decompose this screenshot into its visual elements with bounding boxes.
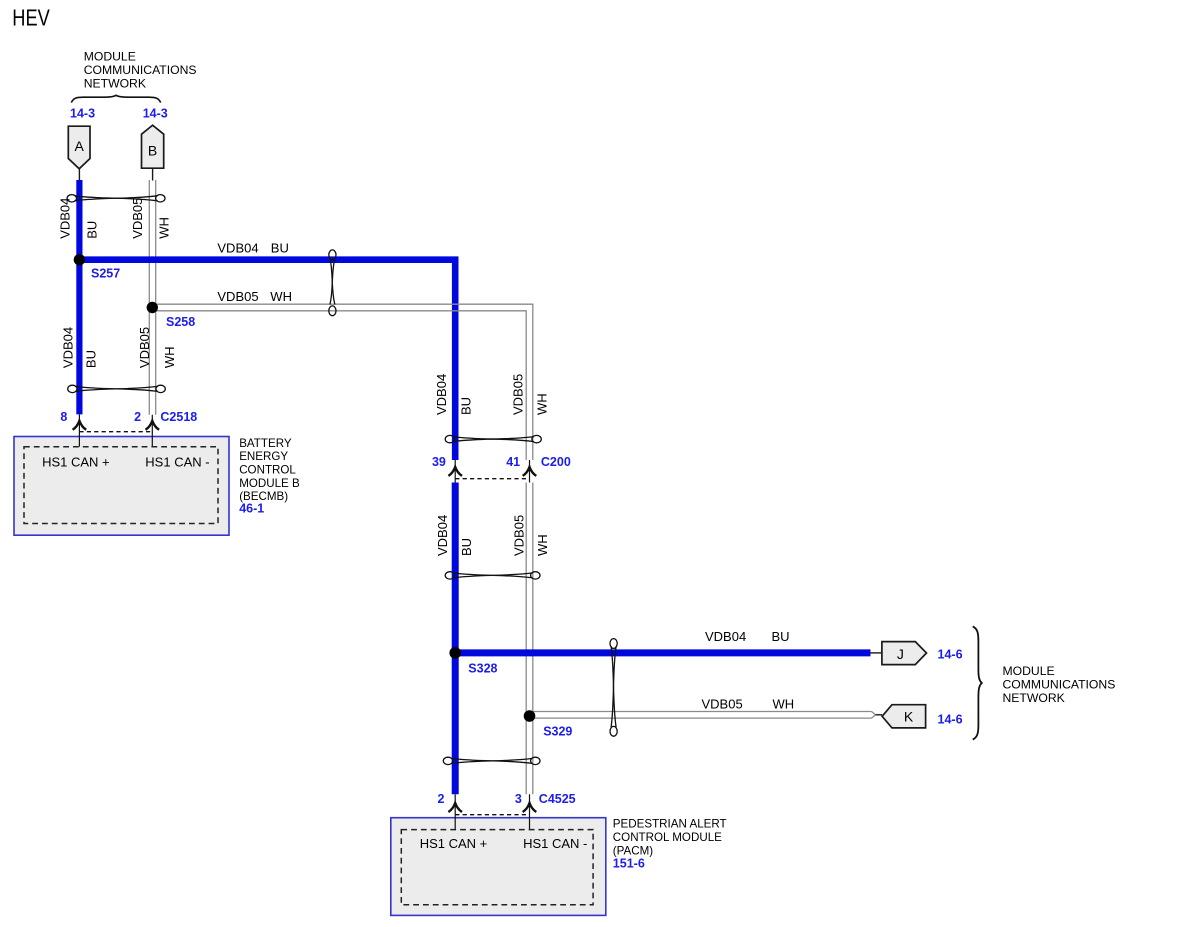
svg-text:J: J (897, 646, 904, 662)
svg-text:MODULE B: MODULE B (239, 477, 300, 490)
svg-text:MODULE: MODULE (1003, 664, 1055, 678)
svg-text:HS1 CAN +: HS1 CAN + (42, 454, 110, 469)
svg-text:14-3: 14-3 (70, 106, 95, 120)
dashed link C2518 (79, 431, 152, 433)
svg-text:VDB04: VDB04 (57, 198, 72, 239)
wire VDB05 WH pair from C200 down to C4525 pin 3 (526, 483, 533, 795)
pin arrow C200 pin 41 (523, 460, 537, 483)
svg-text:S328: S328 (468, 661, 497, 675)
svg-text:NETWORK: NETWORK (84, 77, 146, 91)
svg-text:S329: S329 (543, 725, 572, 739)
twisted pair symbol above C2518 (68, 385, 166, 392)
connector A (68, 126, 90, 169)
splice S329 (524, 710, 536, 722)
svg-text:VDB04: VDB04 (435, 515, 450, 556)
svg-text:A: A (75, 138, 85, 154)
svg-text:C4525: C4525 (539, 792, 576, 806)
svg-text:VDB05: VDB05 (512, 515, 527, 556)
svg-text:WH: WH (535, 393, 550, 415)
svg-text:ENERGY: ENERGY (239, 450, 288, 463)
svg-text:2: 2 (134, 410, 141, 424)
wire VDB05 WH pair from B to C2518 pin 2 (149, 180, 155, 415)
svg-text:COMMUNICATIONS: COMMUNICATIONS (1003, 677, 1116, 691)
svg-text:HEV: HEV (12, 5, 50, 31)
wire VDB04 BU from S257 right then down to C200 pin 39 (79, 260, 455, 460)
svg-text:14-6: 14-6 (938, 712, 963, 726)
wire VDB05 WH pair from S329 to connector K (530, 712, 876, 719)
splice S258 (147, 302, 158, 313)
svg-text:VDB04: VDB04 (60, 327, 75, 368)
svg-text:14-3: 14-3 (143, 106, 168, 120)
label module communications network (top) (84, 50, 197, 91)
wire VDB05 WH pair from S258 right then down to C200 pin 41 (152, 304, 533, 460)
wire stub below B (152, 168, 154, 180)
svg-text:HS1 CAN +: HS1 CAN + (420, 836, 488, 851)
svg-text:CONTROL MODULE: CONTROL MODULE (613, 831, 722, 844)
module box BECMB (14, 437, 229, 536)
splice S328 (449, 647, 461, 659)
svg-text:14-6: 14-6 (938, 647, 963, 661)
svg-text:WH: WH (535, 534, 550, 556)
label module communications network (right) (1003, 664, 1116, 705)
svg-text:B: B (148, 143, 157, 159)
wire VDB04 BU from S328 to connector J (455, 649, 870, 656)
svg-text:(PACM): (PACM) (613, 845, 653, 858)
svg-text:VDB04: VDB04 (217, 241, 258, 256)
connector K (882, 705, 926, 728)
svg-text:CONTROL: CONTROL (239, 464, 296, 477)
brace top (71, 95, 160, 102)
svg-text:K: K (904, 709, 914, 725)
wire VDB04 BU from C200 down to C4525 pin 2 (452, 483, 459, 795)
module box PACM (391, 818, 606, 916)
svg-text:VDB05: VDB05 (511, 374, 526, 415)
svg-text:WH: WH (270, 289, 292, 304)
pin arrow C200 pin 39 (448, 460, 462, 483)
pin arrow C4525 pin 2 (448, 794, 462, 829)
svg-text:MODULE: MODULE (84, 50, 136, 64)
svg-text:WH: WH (162, 346, 177, 368)
splice S257 (74, 254, 85, 265)
dashed link C200 (455, 478, 529, 480)
svg-text:S257: S257 (91, 267, 120, 281)
svg-text:VDB05: VDB05 (702, 697, 743, 712)
brace right (973, 627, 982, 740)
svg-text:WH: WH (156, 217, 171, 239)
svg-text:151-6: 151-6 (613, 857, 645, 871)
twisted pair symbol above C4525 (443, 757, 540, 764)
svg-text:8: 8 (60, 410, 67, 424)
inner dashed border BECMB (24, 447, 218, 524)
svg-text:C2518: C2518 (160, 410, 197, 424)
svg-text:BU: BU (84, 221, 99, 239)
lead line to connector K (876, 714, 883, 716)
svg-text:NETWORK: NETWORK (1003, 691, 1065, 705)
module name BECMB (239, 437, 300, 503)
twisted pair symbol (vertical) on horizontal wires x=332 (329, 250, 336, 316)
svg-text:COMMUNICATIONS: COMMUNICATIONS (84, 63, 197, 77)
svg-text:BU: BU (271, 241, 289, 256)
pin arrow C2518 pin 2 (146, 415, 160, 447)
svg-text:39: 39 (432, 455, 446, 469)
svg-text:BU: BU (84, 350, 99, 368)
svg-text:3: 3 (515, 792, 522, 806)
svg-text:BU: BU (772, 629, 790, 644)
svg-text:WH: WH (773, 697, 795, 712)
svg-text:PEDESTRIAN ALERT: PEDESTRIAN ALERT (613, 818, 727, 831)
svg-text:BATTERY: BATTERY (239, 437, 292, 450)
svg-text:2: 2 (437, 792, 444, 806)
lead line to connector J (871, 652, 882, 654)
twisted pair symbol above C200 (445, 435, 541, 442)
dashed link C4525 (455, 814, 529, 816)
pin arrow C2518 pin 8 (73, 414, 87, 446)
connector J (882, 642, 927, 665)
twisted pair symbol below A/B (67, 195, 165, 202)
module name PACM (613, 818, 727, 858)
svg-text:41: 41 (506, 455, 520, 469)
svg-text:S258: S258 (166, 315, 195, 329)
svg-text:BU: BU (459, 397, 474, 415)
svg-text:HS1 CAN -: HS1 CAN - (523, 836, 587, 851)
svg-text:HS1 CAN -: HS1 CAN - (145, 454, 209, 469)
connector B (142, 125, 164, 168)
svg-text:VDB04: VDB04 (705, 629, 746, 644)
svg-text:VDB05: VDB05 (130, 198, 145, 239)
svg-text:VDB05: VDB05 (217, 289, 258, 304)
twisted pair symbol above S328 (445, 572, 540, 579)
svg-text:C200: C200 (541, 455, 571, 469)
wire stub below A (78, 169, 80, 181)
svg-text:VDB05: VDB05 (137, 327, 152, 368)
pin arrow C4525 pin 3 (523, 794, 537, 829)
twisted pair symbol (vertical) on J/K wires x=613.6 (610, 639, 617, 737)
wire VDB04 BU vertical from A to C2518 pin 8 (76, 180, 82, 414)
svg-text:BU: BU (459, 538, 474, 556)
inner dashed border PACM (401, 830, 593, 905)
svg-text:46-1: 46-1 (239, 502, 264, 516)
svg-text:VDB04: VDB04 (434, 374, 449, 415)
